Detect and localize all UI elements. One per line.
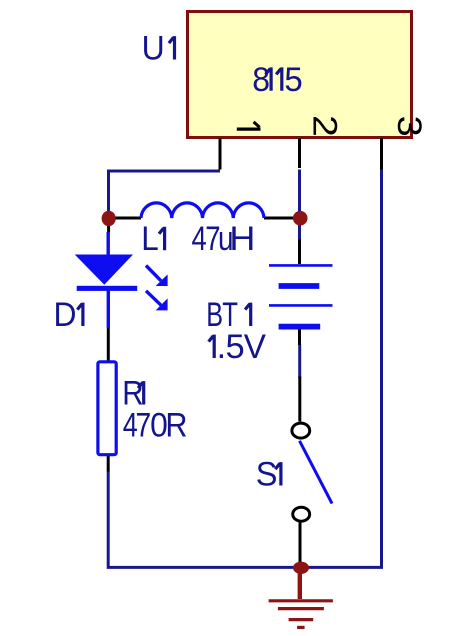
svg-text:3: 3	[390, 116, 428, 137]
svg-text:L: L	[141, 220, 159, 258]
svg-text:U: U	[142, 30, 165, 68]
svg-text:D: D	[54, 296, 77, 334]
svg-text:5: 5	[284, 61, 302, 99]
svg-text:H: H	[229, 220, 255, 258]
svg-text:8: 8	[252, 61, 270, 99]
svg-text:R: R	[165, 407, 187, 445]
svg-text:S: S	[256, 456, 278, 494]
svg-text:5: 5	[226, 328, 245, 366]
svg-text:2: 2	[306, 115, 344, 137]
svg-text:V: V	[244, 328, 267, 366]
svg-text:7: 7	[136, 407, 152, 445]
